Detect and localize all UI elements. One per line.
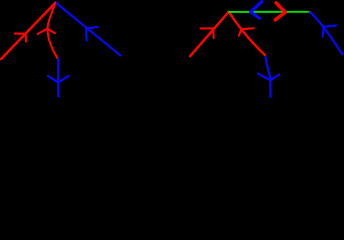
left diagram: incoming red line A [1, 3, 56, 60]
right diagram: red line F from peak down-right [229, 12, 265, 55]
left diagram: blue line B from peak down-right [56, 3, 121, 56]
blue arrowhead on line G (points left) [251, 2, 262, 12]
left diagram: red curve C from peak down to lower vertex [47, 3, 57, 59]
arrowhead on line E (points up-right) [201, 28, 214, 38]
arrowhead on line B (points up-left) [86, 27, 98, 40]
arrowhead on line F (points up-left) [239, 28, 254, 35]
arrowhead on curve C (points up) [38, 29, 55, 34]
right diagram: blue vertical line I [266, 57, 271, 97]
right diagram: blue line H down-right from end of G [310, 12, 342, 54]
arrowhead on line D (points down) [48, 76, 68, 83]
arrowhead on line I (points down) [258, 74, 279, 81]
right diagram: green horizontal line G [229, 11, 310, 13]
left diagram: blue vertical line D [57, 59, 59, 97]
red arrowhead on line G (points right) [275, 3, 285, 20]
arrowhead on line A (points up-right) [15, 33, 26, 41]
arrowhead on line H (points up-left) [323, 26, 336, 37]
right diagram: incoming red line E [190, 12, 229, 57]
